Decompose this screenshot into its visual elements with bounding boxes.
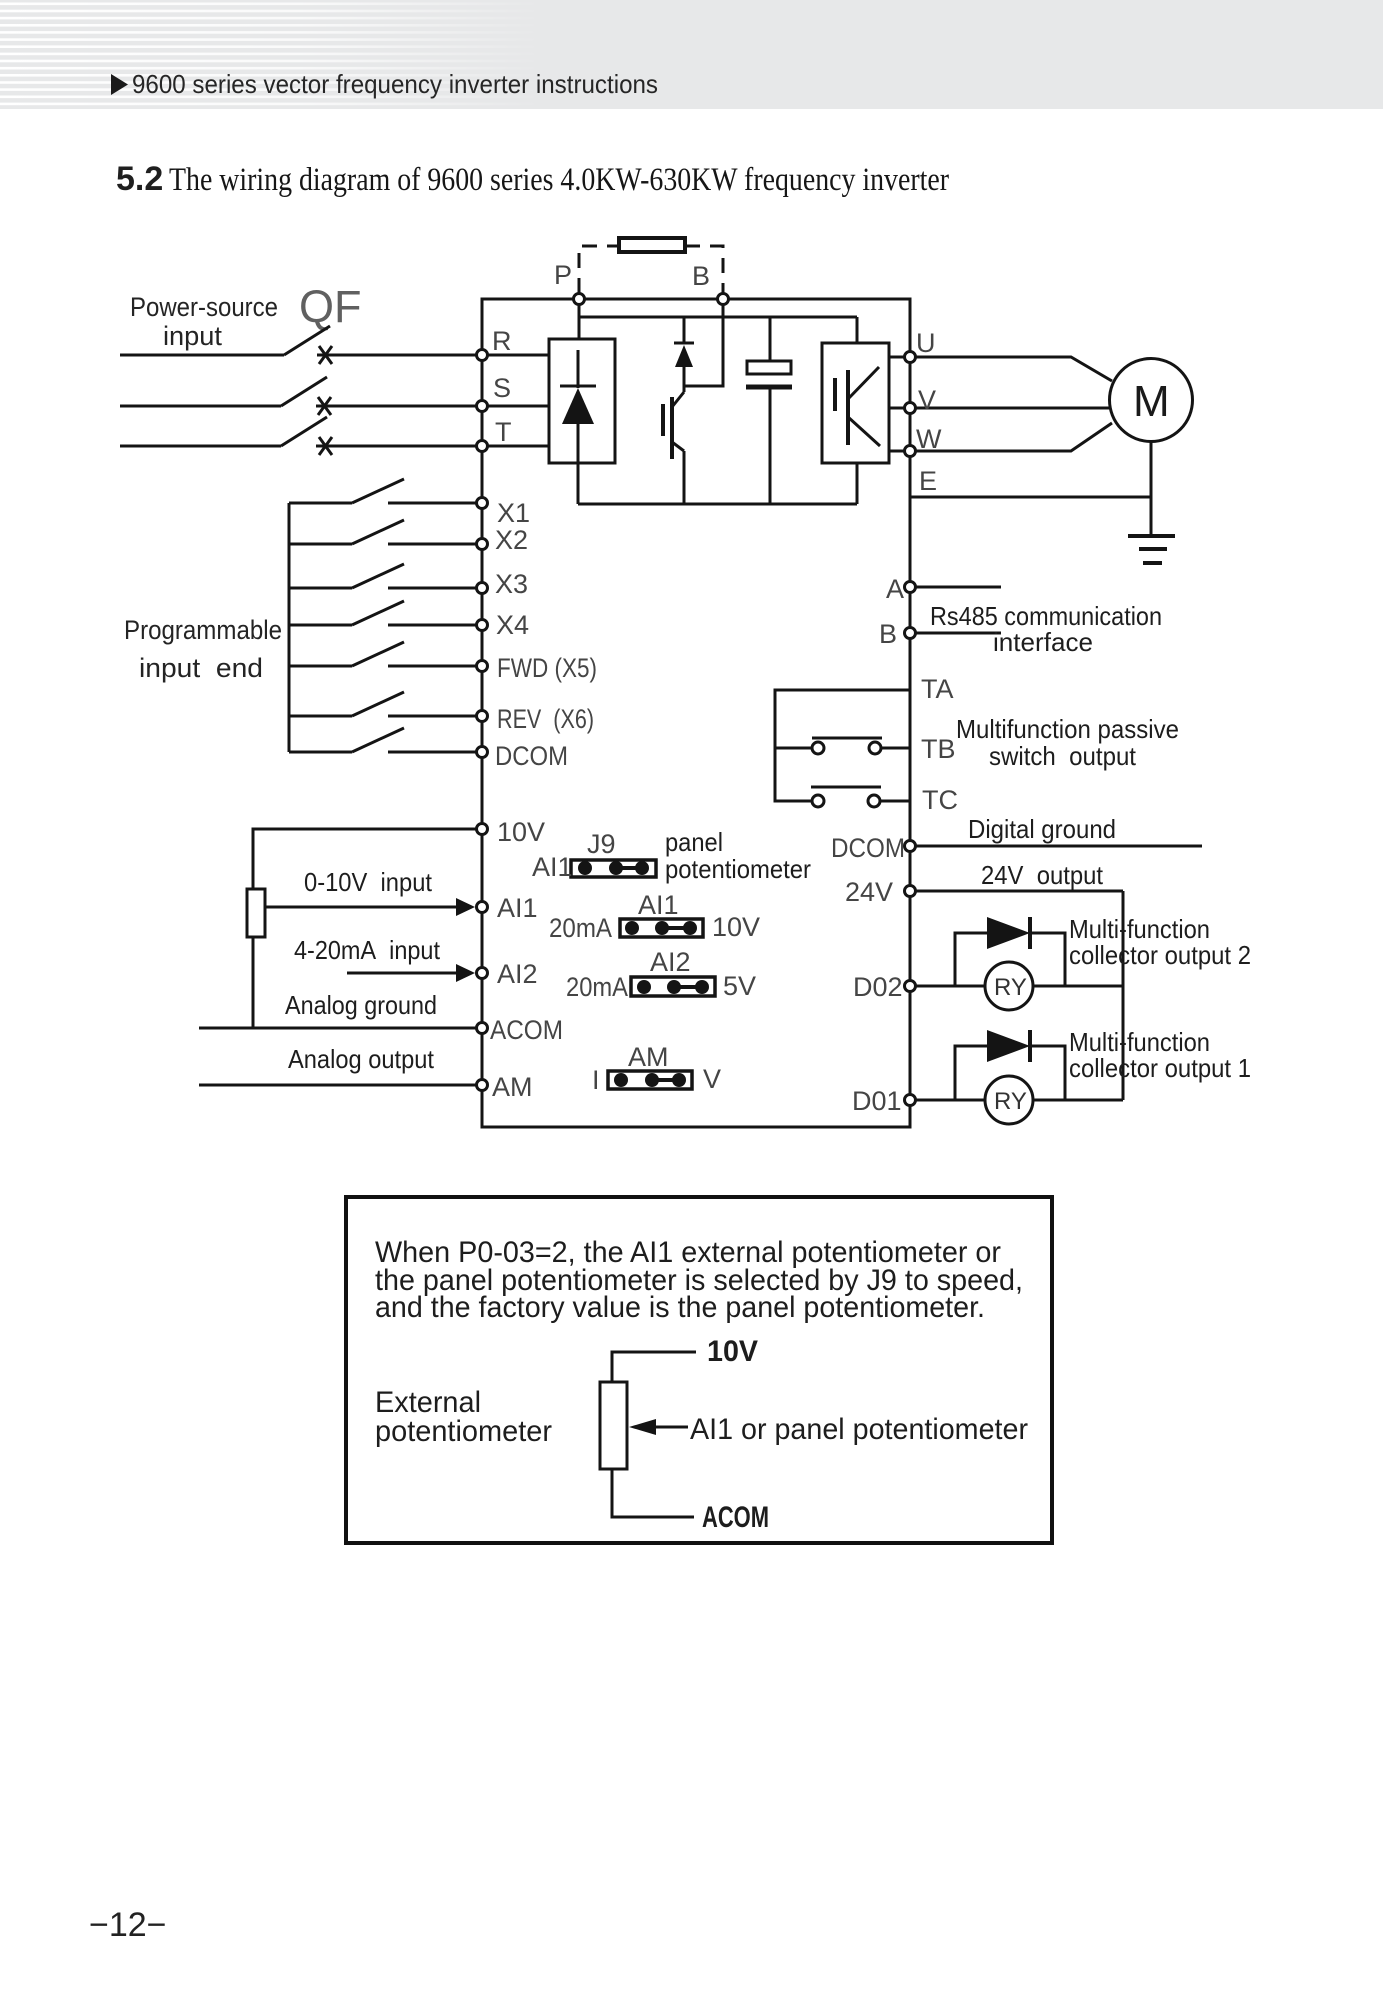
terminal 24V	[905, 886, 916, 897]
wire ACOM	[199, 1027, 476, 1030]
terminal S	[477, 373, 512, 412]
wire AI2 arrow	[347, 964, 475, 982]
svg-text:switch output: switch output	[989, 741, 1137, 771]
svg-text:AI1: AI1	[532, 852, 573, 882]
svg-text:ACOM: ACOM	[490, 1015, 563, 1045]
DC- bus	[578, 503, 857, 506]
jumper AI1	[620, 919, 703, 937]
motor ground wire	[1150, 442, 1153, 536]
wire S to rectifier	[488, 405, 549, 408]
wire T to rectifier	[488, 445, 549, 448]
rectifier D1	[549, 304, 615, 504]
header band	[0, 0, 1383, 109]
switch X4	[289, 601, 476, 625]
switch FWD	[289, 642, 476, 666]
wire U to motor	[916, 357, 1112, 381]
wire E earth	[910, 496, 1151, 499]
svg-text:REV (X6): REV (X6)	[497, 704, 594, 734]
svg-text:B: B	[879, 619, 897, 649]
svg-text:V: V	[918, 385, 936, 415]
svg-text:X2: X2	[495, 525, 528, 555]
jumper AI2	[631, 977, 715, 996]
note text	[375, 1236, 1023, 1324]
svg-text:X4: X4	[496, 610, 529, 640]
svg-text:AI1: AI1	[497, 893, 538, 923]
svg-text:Power-source: Power-source	[130, 292, 278, 322]
header title	[111, 69, 658, 99]
svg-text:10V: 10V	[707, 1335, 758, 1368]
diode D02 branch	[955, 917, 1065, 986]
terminal D02	[905, 981, 916, 992]
terminal REV X6	[477, 704, 595, 734]
switch REV	[289, 692, 476, 716]
terminal AI1	[477, 893, 538, 923]
svg-text:5.2: 5.2	[116, 160, 163, 198]
label Rs485 communication interface	[930, 601, 1162, 657]
svg-text:R: R	[492, 326, 512, 356]
svg-text:J9: J9	[587, 829, 616, 859]
DC bus capacitor C1	[746, 317, 792, 504]
24V collector bus	[1122, 891, 1125, 1100]
terminal X3	[477, 569, 529, 599]
svg-text:potentiometer: potentiometer	[375, 1415, 552, 1448]
switch DCOM	[289, 728, 476, 752]
svg-text:AI2: AI2	[650, 947, 691, 977]
svg-text:4-20mA input: 4-20mA input	[294, 935, 441, 965]
terminal R	[477, 326, 512, 361]
svg-text:T: T	[495, 417, 512, 447]
24V wire	[916, 890, 1123, 893]
switch X3	[289, 564, 476, 588]
svg-text:5V: 5V	[723, 971, 756, 1001]
digital ground wire	[916, 845, 1202, 848]
svg-text:Analog ground: Analog ground	[285, 990, 437, 1020]
svg-text:24V: 24V	[845, 877, 893, 907]
note box	[346, 1197, 1052, 1543]
terminal U	[905, 328, 936, 363]
svg-text:TA: TA	[921, 674, 954, 704]
label Multifunction passive switch output	[956, 714, 1179, 771]
terminal D01	[905, 1095, 916, 1106]
terminal T	[477, 417, 512, 452]
DC+ bus	[579, 316, 857, 319]
svg-text:S: S	[493, 373, 511, 403]
svg-text:interface: interface	[993, 627, 1093, 657]
wire W to motor	[916, 423, 1112, 451]
D02 wire	[916, 985, 1123, 988]
terminal DCOM right	[905, 841, 916, 852]
svg-text:collector output 1: collector output 1	[1069, 1053, 1251, 1083]
svg-text:RY: RY	[994, 1088, 1027, 1115]
wire phase R input	[120, 326, 476, 364]
brake IGBT Q1	[663, 392, 684, 504]
svg-text:RY: RY	[994, 974, 1027, 1001]
svg-text:input: input	[163, 321, 222, 351]
terminal ACOM	[477, 1015, 564, 1045]
potentiometer RP1	[247, 829, 476, 1028]
wire phase S input	[120, 377, 476, 415]
svg-text:potentiometer: potentiometer	[665, 854, 811, 884]
diode D01 branch	[955, 1030, 1065, 1100]
svg-text:9600 series vector frequency i: 9600 series vector frequency inverter in…	[132, 69, 658, 99]
terminal B rs485	[905, 628, 916, 639]
terminal AM	[477, 1072, 533, 1102]
external potentiometer RP2	[600, 1352, 696, 1517]
svg-text:B: B	[692, 261, 710, 291]
label Power-source input	[130, 292, 278, 351]
svg-text:Multifunction passive: Multifunction passive	[956, 714, 1179, 744]
svg-text:input end: input end	[139, 653, 263, 683]
terminal P	[574, 294, 585, 305]
wire V to motor	[916, 407, 1109, 410]
svg-text:X3: X3	[495, 569, 528, 599]
wire inverter to W	[889, 450, 904, 453]
jumper AM	[608, 1071, 692, 1089]
svg-text:Analog output: Analog output	[288, 1044, 435, 1074]
svg-text:ACOM: ACOM	[702, 1501, 769, 1534]
svg-text:Digital ground: Digital ground	[968, 814, 1116, 844]
svg-text:AI1: AI1	[638, 890, 679, 920]
terminal A	[905, 582, 916, 593]
svg-text:TC: TC	[922, 785, 958, 815]
terminal V	[905, 385, 937, 415]
terminal B	[718, 294, 729, 305]
jumper J9	[571, 860, 656, 877]
wiper arrow	[629, 1419, 688, 1435]
svg-text:I: I	[592, 1065, 600, 1095]
D01 wire	[916, 1099, 1123, 1102]
wire phase T input	[120, 417, 476, 455]
svg-text:U: U	[916, 328, 936, 358]
svg-text:P: P	[554, 260, 572, 290]
label External potentiometer	[375, 1386, 552, 1448]
wire AI1 arrow	[265, 898, 475, 916]
terminal X2	[477, 525, 529, 555]
svg-text:TB: TB	[921, 734, 956, 764]
switch X2	[289, 520, 476, 544]
motor M	[1110, 359, 1193, 442]
inverter main box	[482, 299, 910, 1127]
terminal 10V	[477, 817, 546, 847]
svg-text:DCOM: DCOM	[495, 741, 568, 771]
svg-text:24V output: 24V output	[981, 860, 1104, 890]
svg-text:FWD (X5): FWD (X5)	[497, 653, 597, 683]
RS485 A wire	[916, 586, 1001, 589]
relay output K1	[775, 690, 910, 807]
svg-text:AI2: AI2	[497, 959, 538, 989]
svg-text:X1: X1	[497, 498, 530, 528]
ground	[1128, 536, 1175, 563]
wire B terminal to chopper	[684, 305, 723, 386]
svg-text:20mA: 20mA	[566, 972, 628, 1002]
terminal DCOM	[477, 741, 569, 771]
svg-text:D02: D02	[853, 972, 903, 1002]
svg-text:panel: panel	[665, 827, 723, 857]
svg-text:QF: QF	[299, 281, 362, 332]
svg-text:DCOM: DCOM	[831, 833, 905, 863]
svg-text:E: E	[919, 466, 937, 496]
section title 5.2	[116, 160, 949, 198]
svg-text:and the factory value is the p: and the factory value is the panel poten…	[375, 1291, 985, 1324]
svg-text:AM: AM	[492, 1072, 533, 1102]
svg-text:M: M	[1133, 377, 1170, 426]
svg-text:collector output 2: collector output 2	[1069, 940, 1251, 970]
brake chopper diode	[674, 317, 694, 392]
terminal AI2	[477, 959, 538, 989]
wire inverter to V	[889, 407, 904, 410]
svg-text:V: V	[703, 1064, 721, 1094]
wire AM	[199, 1084, 476, 1087]
label Multi-function collector output 1	[1069, 1027, 1251, 1083]
svg-text:20mA: 20mA	[549, 913, 612, 943]
terminal FWD X5	[477, 653, 598, 683]
wire inverter to U	[889, 356, 904, 359]
relay RY2	[985, 962, 1033, 1010]
label Programmable input end	[124, 615, 282, 683]
svg-text:−12−: −12−	[89, 1906, 167, 1944]
label panel potentiometer	[665, 827, 811, 884]
svg-text:10V: 10V	[712, 912, 760, 942]
svg-text:The wiring diagram of 9600 ser: The wiring diagram of 9600 series 4.0KW-…	[169, 162, 949, 198]
terminal W	[905, 424, 943, 457]
svg-text:10V: 10V	[497, 817, 545, 847]
svg-text:W: W	[916, 424, 942, 454]
svg-text:AM: AM	[628, 1042, 669, 1072]
label Multi-function collector output 2	[1069, 914, 1251, 970]
switch X1	[289, 479, 476, 503]
svg-text:0-10V input: 0-10V input	[304, 867, 433, 897]
svg-text:A: A	[886, 574, 904, 604]
braking resistor	[579, 238, 723, 293]
terminal X4	[477, 610, 530, 640]
inverter IGBT module U1	[822, 317, 889, 504]
svg-text:D01: D01	[852, 1086, 902, 1116]
programmable input bus	[288, 503, 291, 752]
wire R to rectifier	[488, 354, 549, 357]
svg-text:AI1 or panel potentiometer: AI1 or panel potentiometer	[690, 1413, 1028, 1446]
svg-text:Programmable: Programmable	[124, 615, 282, 645]
relay RY1	[985, 1076, 1033, 1124]
RS485 B wire	[916, 632, 1001, 635]
terminal X1	[477, 498, 531, 529]
